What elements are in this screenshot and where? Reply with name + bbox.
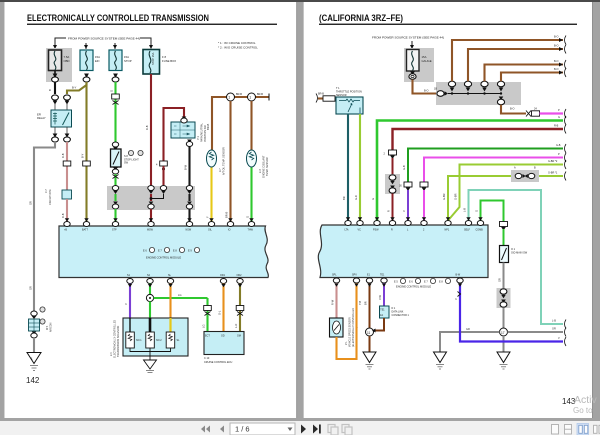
label G thw — [246, 216, 250, 218]
label aqua — [463, 208, 467, 212]
ECM bottom pin S2 — [147, 274, 153, 284]
svg-text:E 9: E 9 — [188, 250, 192, 253]
connector inline odsw — [500, 222, 508, 227]
svg-text:GAUGE: GAUGE — [422, 59, 432, 63]
svg-text:R-B: R-B — [554, 125, 559, 128]
wire olive elbow F2 to relay pin2 — [67, 82, 87, 94]
svg-text:G-BR: G-BR — [454, 193, 458, 200]
shaded connector pair odsw — [497, 288, 511, 308]
svg-text:VC: VC — [358, 229, 362, 232]
junction connector black top — [186, 186, 192, 195]
bus dots — [451, 92, 502, 94]
svg-text:FROM POWER SOURCE SYSTEM (SEE: FROM POWER SOURCE SYSTEM (SEE PAGE 44) — [68, 37, 140, 41]
shield label — [46, 322, 53, 332]
svg-text:BR-B: BR-B — [257, 93, 263, 96]
junction connector black bottom — [186, 202, 192, 210]
svg-text:GR: GR — [29, 286, 33, 290]
relay pin stubs — [55, 104, 67, 110]
wire gray junction down — [503, 336, 505, 352]
wire pink lower — [66, 199, 68, 222]
svg-text:BR-B: BR-B — [318, 93, 324, 96]
ECM pin STP — [112, 222, 119, 232]
PNP label — [197, 122, 207, 142]
wire magenta2 lower — [423, 190, 425, 222]
svg-text:IO: IO — [228, 229, 231, 232]
end brace lg1 — [548, 172, 566, 181]
label V-W te1 — [378, 295, 382, 300]
svg-text:G-R: G-R — [354, 195, 358, 200]
pin arrows ECM left top — [65, 218, 254, 221]
shielded connector top oval — [31, 311, 37, 319]
ground left of odsw — [434, 352, 447, 369]
fuse F1 7.5A — [49, 50, 70, 71]
svg-text:C 10: C 10 — [204, 357, 210, 360]
junction circle S2 — [146, 294, 153, 301]
ECM right pin SELF — [464, 221, 472, 232]
label GR odsw — [498, 278, 502, 282]
OD main switch — [500, 246, 528, 263]
jumper darkred2 to darkred1 — [152, 194, 164, 199]
junction block shaded — [107, 186, 195, 210]
cruise ECU label — [204, 357, 232, 364]
junction circle E1 — [366, 328, 374, 336]
svg-text:NO.2: NO.2 — [156, 339, 162, 342]
svg-text:STP: STP — [112, 229, 117, 232]
wire brown bus top — [212, 97, 269, 150]
svg-text:OM: OM — [237, 335, 241, 338]
wire brown strip to splice — [501, 105, 526, 114]
wire orange SPV loop — [337, 283, 357, 359]
ECM bottom pin OD2 — [237, 274, 244, 284]
svg-text:THW: THW — [248, 229, 254, 232]
wire brown v2 — [468, 49, 563, 81]
connector inline magenta2 — [420, 182, 428, 187]
wire green S2 upper — [149, 284, 151, 295]
ECM bottom pin SL — [167, 274, 173, 284]
splice X cruise olive — [237, 312, 243, 316]
toolbar background — [0, 421, 600, 435]
connector inline cruise olive — [236, 306, 244, 311]
wire brown v3 — [485, 65, 564, 82]
connector inline olive — [83, 161, 91, 166]
svg-text:MSW: MSW — [147, 229, 154, 232]
shielded junction box — [29, 319, 40, 331]
label G-B L — [402, 165, 406, 170]
wire brown v4 — [501, 73, 563, 82]
svg-text:STOP: STOP — [124, 59, 132, 63]
svg-text:E 7: E 7 — [158, 250, 162, 253]
wire black into sol1 — [129, 318, 131, 332]
wire indigo BW — [460, 284, 563, 342]
pin arrows ECM left bottom — [128, 284, 242, 287]
fuse gauge 15A — [407, 50, 432, 72]
tool icon copy2 — [342, 425, 352, 435]
wire darkgreen L upper — [408, 149, 563, 183]
nav next icon — [301, 425, 306, 434]
end brace aqua — [552, 320, 566, 329]
feed stub fuse3 — [114, 43, 116, 49]
wire aqua SELF — [469, 190, 564, 324]
wire darkred F4 down — [150, 74, 152, 185]
connector relay pin2 — [64, 95, 71, 105]
ECM pin THW — [248, 222, 255, 232]
svg-text:TEMP. SENSOR: TEMP. SENSOR — [266, 157, 269, 176]
lg1 connector right — [525, 167, 536, 179]
wire black mid — [188, 194, 190, 222]
svg-text:B-Y: B-Y — [72, 86, 77, 90]
wire black into sol2 — [149, 318, 152, 332]
svg-text:O-L: O-L — [218, 310, 222, 315]
label indigo — [454, 298, 458, 300]
stop light ref circles — [128, 150, 143, 155]
svg-text:SW: SW — [124, 162, 129, 165]
wire purple S1 — [129, 284, 131, 319]
wire fuse1 to connector — [54, 71, 56, 78]
wire black PNP down — [188, 147, 190, 186]
strip connector bottom — [497, 97, 504, 105]
right page — [303, 2, 593, 418]
ECM right bottom pin SPL — [332, 274, 340, 284]
wire brown E1 — [369, 283, 371, 329]
junction dot darkred2 — [162, 168, 165, 171]
ground solenoid — [144, 356, 157, 373]
junction circle odsw — [500, 328, 508, 336]
svg-text:R: R — [387, 210, 391, 212]
odsw connector lower — [500, 300, 507, 308]
end brace indigo — [558, 337, 566, 346]
label BR-B mid — [225, 212, 229, 218]
nav last icon — [313, 425, 321, 434]
ECM right bottom pin E1 — [366, 274, 372, 284]
ECM bottom pin OD1 — [220, 274, 227, 284]
sensor shield connector circle A — [40, 307, 45, 312]
svg-text:B-O: B-O — [554, 60, 559, 63]
wire green sensor2 to ECM — [250, 168, 252, 222]
label Y — [206, 216, 210, 218]
VSS label — [345, 308, 359, 347]
junction connector darkred2 — [160, 186, 166, 195]
label LG branch — [178, 293, 181, 297]
ECM right pin 2 — [421, 221, 427, 232]
right power arrowhead — [410, 45, 414, 49]
page input box — [230, 423, 295, 435]
connector inline 24 — [532, 108, 540, 117]
wire gray odsw upper — [503, 263, 505, 289]
connector inline darkred2 — [156, 161, 167, 167]
svg-text:ELECTRONICALLY CONTROLLED TRAN: ELECTRONICALLY CONTROLLED TRANSMISSION — [27, 13, 209, 23]
svg-text:CRUISE CONTROL ECU: CRUISE CONTROL ECU — [204, 361, 232, 364]
label GR — [29, 201, 33, 205]
svg-text:STOP 15A: STOP 15A — [151, 52, 155, 65]
label R-B pink upper — [61, 153, 65, 158]
shaded connector pair R — [385, 174, 400, 194]
circuit opening relay box — [45, 189, 72, 205]
bus end bar — [268, 94, 270, 101]
fuse F2 15A EFI — [80, 50, 100, 71]
label BR e1 — [364, 301, 368, 305]
label B — [48, 89, 52, 91]
svg-text:BR-B: BR-B — [206, 124, 210, 130]
wire orange SL — [169, 284, 171, 319]
end brace darkred — [554, 125, 566, 134]
solenoid common bus — [130, 348, 171, 356]
svg-text:Activ: Activ — [574, 394, 598, 406]
arrow into junction — [372, 329, 376, 333]
layout icon two-page active — [577, 424, 589, 435]
stop light switch — [111, 149, 140, 167]
svg-text:V: V — [124, 303, 128, 305]
svg-text:B-O: B-O — [554, 36, 559, 39]
svg-text:11: 11 — [367, 331, 371, 335]
label LG drop — [202, 325, 206, 328]
connector below F2 — [83, 74, 90, 83]
label B-Y olive — [81, 153, 85, 158]
svg-text:G-BR *2: G-BR *2 — [548, 160, 558, 163]
svg-text:BR-B: BR-B — [225, 212, 229, 218]
svg-text:G: G — [110, 90, 114, 92]
wire green branch to cruise — [154, 297, 208, 299]
splice X green — [113, 101, 119, 105]
end brace magenta stub — [558, 109, 566, 118]
wire lightgreen VC — [359, 114, 361, 222]
svg-text:LG: LG — [202, 325, 206, 328]
svg-text:B-O: B-O — [510, 108, 515, 111]
connector inline L — [399, 182, 412, 188]
svg-text:G-B: G-B — [402, 165, 406, 170]
svg-text:BATT: BATT — [82, 229, 88, 232]
label R-W spl — [331, 299, 335, 305]
strip connector v2 — [464, 81, 471, 91]
end brace darkgreen — [556, 144, 566, 153]
svg-text:COMB: COMB — [476, 229, 484, 232]
svg-text:R-B: R-B — [61, 153, 65, 158]
svg-text:B-W: B-W — [456, 274, 461, 277]
wire lightgreen star2 — [448, 165, 563, 221]
end brace lg2 — [548, 160, 566, 169]
wire magenta2 upper — [424, 158, 563, 183]
wire darkred2 PNP loop — [164, 108, 185, 161]
PNP top connector — [181, 117, 187, 124]
label V-Y L — [402, 210, 406, 212]
svg-text:SPL: SPL — [332, 274, 337, 277]
splice X cruise green — [205, 312, 211, 316]
coolant temp label — [259, 155, 269, 178]
wire magenta stub — [540, 112, 564, 114]
connector relay pin1 — [52, 95, 59, 105]
connector below F3 — [112, 74, 119, 83]
relay EFI — [37, 110, 72, 127]
wire gray to ground — [33, 338, 35, 352]
ECM right pin R — [389, 221, 395, 232]
layout icon single-scroll — [565, 425, 572, 435]
label lg1 — [442, 193, 446, 200]
relay lower stubs — [55, 127, 67, 137]
svg-text:CONNECTOR 1: CONNECTOR 1 — [392, 314, 410, 317]
solenoid box label — [110, 320, 120, 358]
svg-text:RELAY: RELAY — [37, 116, 46, 120]
wire darkred1 mid — [150, 194, 152, 222]
wire darkred R upper — [393, 129, 564, 150]
TPS left stub brace — [316, 93, 324, 103]
label B-O gauge — [424, 90, 429, 93]
label B-W pnp — [184, 164, 188, 170]
svg-text:G: G — [558, 116, 560, 119]
svg-text:LTA: LTA — [345, 229, 349, 232]
svg-text:BR-B: BR-B — [236, 93, 242, 96]
wire green to junction strip — [114, 174, 116, 185]
ground left page — [27, 353, 41, 371]
label R wire — [387, 210, 391, 212]
wire darkred R mid — [392, 158, 394, 174]
arrow below connector R — [390, 156, 395, 160]
junction dot merge — [150, 197, 153, 200]
svg-text:B-O: B-O — [554, 45, 559, 48]
wire brown v1 — [452, 40, 563, 81]
svg-text:E 6: E 6 — [409, 281, 413, 284]
ECM right pin COMB — [476, 221, 484, 232]
lg1 connector left — [514, 167, 526, 179]
svg-text:E 8: E 8 — [439, 281, 443, 284]
strip connector v3 — [481, 81, 488, 91]
end brace magenta2 — [558, 153, 566, 162]
label R-B f4 — [145, 125, 149, 130]
svg-text:1 / 6: 1 / 6 — [235, 425, 250, 434]
svg-text:E 5: E 5 — [394, 281, 398, 284]
arrows into fuses — [53, 45, 153, 49]
svg-text:V: V — [454, 298, 458, 300]
svg-text:AIRCON: AIRCON — [50, 322, 53, 332]
svg-text:C 7: C 7 — [45, 189, 48, 193]
svg-text:G: G — [475, 210, 479, 212]
svg-text:R-B: R-B — [61, 213, 65, 218]
wire gray right to edge — [508, 331, 564, 333]
ECM right ref circles — [394, 278, 451, 288]
pin arrows ECM right top — [346, 217, 483, 220]
svg-text:E 6: E 6 — [143, 250, 147, 253]
svg-text:1: 1 — [249, 96, 251, 100]
wire gray left to ground — [440, 332, 500, 352]
wire teal LTA — [347, 114, 349, 222]
wire gray from relay to far left down — [34, 142, 55, 312]
ECM right bottom pin TE1 — [380, 274, 387, 284]
wire green F3 down — [114, 82, 116, 143]
label B-Y — [72, 86, 77, 90]
junction connector green bottom — [112, 202, 118, 210]
ECM left inner text — [143, 247, 200, 259]
svg-text:OD: OD — [221, 335, 225, 338]
svg-text:+B: +B — [64, 229, 67, 232]
svg-text:17: 17 — [501, 331, 505, 335]
svg-text:Go to: Go to — [573, 406, 593, 415]
wire gray odsw lower — [503, 308, 505, 329]
shielded connector bottom oval — [31, 332, 37, 339]
svg-text:1: 1 — [228, 96, 230, 100]
svg-text:ENGINE CONTROL MODULE: ENGINE CONTROL MODULE — [396, 285, 431, 289]
svg-text:GR: GR — [466, 328, 470, 331]
strip connector v1 — [448, 81, 455, 91]
svg-text:E 7: E 7 — [424, 281, 428, 284]
svg-text:NP1: NP1 — [445, 229, 450, 232]
connector R lower oval — [389, 186, 396, 194]
label G-W — [110, 90, 114, 92]
connector inline green upper — [112, 94, 120, 99]
svg-text:V-W: V-W — [378, 295, 382, 300]
ECM left box — [59, 226, 268, 278]
ECM pin NSW — [186, 222, 193, 232]
bus connector 2 — [248, 93, 264, 101]
svg-text:E 8: E 8 — [173, 250, 177, 253]
wire purple L — [407, 190, 409, 222]
svg-text:Y-B: Y-B — [358, 301, 362, 305]
cruise control ECU box — [204, 332, 244, 355]
svg-text:V: V — [402, 210, 406, 212]
wire brown right to sensor2 — [250, 101, 252, 150]
junction connector darkred1 bottom — [148, 202, 154, 210]
nav first-page icon — [201, 426, 210, 433]
strip connector left — [434, 88, 448, 97]
ECM bottom pin S1 — [127, 274, 133, 284]
junction connector green top — [112, 186, 118, 195]
park neutral position switch — [171, 122, 195, 138]
splice X green 2 — [113, 175, 119, 179]
connector R upper oval — [389, 175, 396, 185]
wire brown E1 to ground — [369, 336, 371, 352]
svg-text:LG: LG — [178, 293, 181, 297]
svg-text:1B: 1B — [434, 88, 437, 91]
strip connector v4 — [497, 81, 504, 91]
ECM pin +B — [64, 222, 70, 232]
svg-text:R-W: R-W — [331, 299, 335, 305]
label B-O low — [510, 108, 515, 111]
connector inline cruise green — [204, 306, 212, 311]
shaded block gauge fuse — [404, 48, 434, 82]
svg-text:OD2: OD2 — [237, 274, 243, 277]
label O-L cruise — [218, 310, 222, 315]
svg-text:SPV: SPV — [352, 274, 357, 277]
layout icon two-page-scroll — [594, 425, 600, 433]
end brace gray — [552, 328, 566, 337]
wire green PSW — [377, 121, 563, 222]
ECM right pin NP — [445, 221, 452, 232]
svg-text:* 1 : W/ CRUISE CONTROL: * 1 : W/ CRUISE CONTROL — [218, 41, 256, 45]
wire green mid junction — [114, 194, 116, 222]
svg-text:FUSE BOX: FUSE BOX — [162, 59, 176, 63]
ECM right pin VC — [357, 221, 363, 232]
fuse F3 15A STOP — [109, 50, 132, 71]
odsw connector upper — [500, 289, 507, 299]
arrow below connector L — [406, 188, 411, 192]
label G psw — [371, 198, 375, 200]
ECM right bottom pin BW — [456, 274, 464, 284]
svg-text:142: 142 — [26, 376, 40, 385]
PNP bottom connector — [186, 140, 192, 147]
chevron marker indigo wire — [458, 292, 461, 297]
sensor shield connector circle B — [40, 319, 45, 324]
svg-text:GR: GR — [29, 201, 33, 205]
svg-text:L-O: L-O — [234, 324, 238, 328]
page number 143 — [562, 397, 576, 406]
connector below F1 — [52, 74, 59, 83]
svg-text:B-W: B-W — [184, 164, 188, 170]
solenoid box — [123, 318, 188, 356]
AT oil temp sensor — [207, 150, 217, 167]
label GR lower — [29, 286, 33, 290]
solenoid no1 — [126, 332, 142, 348]
ECM pin MSW — [147, 222, 154, 232]
end arrow v1 — [554, 36, 566, 45]
svg-text:B: B — [48, 89, 52, 91]
wire green COMB elbow — [481, 201, 504, 222]
